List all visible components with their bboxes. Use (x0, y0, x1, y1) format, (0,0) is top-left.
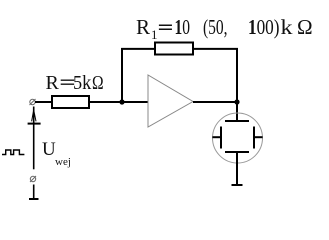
svg-text:wej: wej (55, 156, 71, 168)
svg-text:=: = (158, 15, 174, 39)
input terminal bottom (30, 176, 36, 182)
oscilloscope top plate (225, 120, 249, 122)
voltage arrow Uwej (28, 107, 41, 170)
bottom terminal stub (29, 185, 39, 200)
wire feedback left vertical (121, 48, 123, 102)
wire feedback top left (121, 48, 155, 50)
svg-text:Ω: Ω (297, 15, 313, 39)
oscilloscope left plate (212, 127, 221, 149)
resistor R (52, 96, 89, 108)
svg-text:5k: 5k (73, 72, 91, 94)
oscilloscope bottom lead (232, 152, 243, 185)
wire op-amp output (193, 101, 237, 103)
node A junction dot (119, 99, 124, 104)
op-amp U1 (148, 75, 193, 127)
label R value (46, 72, 104, 94)
oscilloscope CRT circle (213, 113, 263, 163)
svg-text:10: 10 (175, 15, 191, 39)
label R1 value (136, 15, 313, 42)
svg-text:(50,: (50, (203, 15, 228, 39)
resistor R1 (155, 43, 193, 55)
square wave source symbol (2, 150, 24, 155)
svg-text:100): 100) (248, 15, 280, 39)
label Uwej (42, 139, 71, 168)
input terminal top (30, 99, 36, 105)
svg-text:R: R (46, 72, 60, 94)
node B junction dot (234, 99, 239, 104)
oscilloscope right plate (254, 127, 263, 149)
wire input to R (35, 101, 52, 103)
svg-text:U: U (42, 139, 56, 160)
svg-text:Ω: Ω (92, 72, 104, 94)
wire R to op-amp (89, 101, 148, 103)
wire feedback top right (193, 48, 238, 50)
wire feedback right vertical (236, 48, 238, 121)
svg-text:k: k (281, 15, 294, 39)
oscilloscope bottom plate (225, 151, 249, 153)
svg-text:R: R (136, 15, 150, 39)
